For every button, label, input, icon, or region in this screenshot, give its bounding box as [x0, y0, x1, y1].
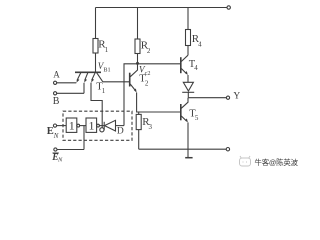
input A terminal [54, 81, 57, 84]
input EN terminal [53, 124, 56, 127]
node circle P [100, 128, 104, 132]
wire U1 to U2 [80, 125, 86, 127]
input /EN terminal [54, 148, 57, 151]
wire R1 to T1 base [95, 53, 97, 72]
ground [185, 157, 192, 159]
resistor R3 [136, 114, 141, 129]
diode VD [183, 82, 193, 91]
wire R2 to node Vc2 [137, 54, 139, 64]
wire U2 to diode D [99, 125, 103, 127]
svg-text:B: B [53, 96, 60, 107]
wire diode to output node [187, 92, 189, 97]
overline of /EN [53, 152, 59, 154]
VCC terminal [227, 6, 230, 9]
transistor T5 base bar [180, 104, 182, 120]
node Vc2 junction [136, 62, 139, 65]
svg-text:D: D [117, 127, 124, 137]
gate U1 box [66, 118, 77, 132]
resistor R1 [93, 39, 98, 54]
gate U2 output bubble [97, 124, 100, 127]
wire /EN riser [83, 126, 85, 150]
svg-text:1: 1 [69, 119, 75, 133]
transistor T1 (multi-emitter) base bar [75, 71, 101, 73]
svg-text:1: 1 [102, 87, 106, 95]
T2 emitter [130, 84, 136, 91]
wire input A [57, 82, 77, 84]
gate U2 box [86, 118, 97, 132]
svg-text:Y: Y [233, 92, 240, 102]
wire Vc2 to T4 base [138, 63, 181, 65]
transistor T2 base bar [129, 73, 131, 87]
svg-text:E: E [47, 126, 54, 137]
wire EN to gate U1 [57, 125, 67, 127]
svg-text:1: 1 [105, 46, 109, 54]
output Y terminal [226, 96, 229, 99]
svg-text:2: 2 [145, 80, 149, 88]
bottom terminal [226, 148, 229, 151]
svg-text:1: 1 [89, 119, 95, 133]
T1 emitter 1 [77, 72, 81, 80]
wire riser D to node Vc2 [124, 64, 138, 126]
svg-text:A: A [53, 69, 60, 79]
diode D triangle [105, 120, 116, 131]
wire node to T5 base [139, 111, 181, 113]
wire T2 emitter to R3 node [137, 93, 139, 115]
enable block dashed box [63, 111, 132, 140]
wire T1 collector to T2 base [103, 81, 129, 83]
wire T5 emitter to ground [187, 122, 189, 157]
svg-text:牛客@陈英波: 牛客@陈英波 [255, 158, 299, 167]
wire input B [57, 92, 84, 94]
wire R3 to bottom rail [138, 130, 140, 150]
T1 emitter 2 [85, 72, 88, 80]
svg-text:4: 4 [198, 40, 202, 48]
gate U1 output bubble [77, 124, 80, 127]
wire T4 emitter to diode [187, 75, 189, 82]
transistor T4 base bar [180, 57, 182, 73]
T4 collector [181, 55, 188, 61]
wire output node to Y [188, 97, 226, 99]
svg-text:3: 3 [149, 123, 153, 131]
T2 collector [130, 63, 137, 76]
resistor R2 [135, 39, 140, 54]
T5 emitter [181, 116, 186, 121]
input B terminal [54, 92, 57, 95]
wire emitter3 to enable block [91, 83, 102, 128]
power rail VCC (top) [96, 7, 228, 9]
svg-text:B1: B1 [103, 66, 110, 73]
watermark icon [240, 156, 251, 166]
wire R4 to T4 collector [187, 46, 189, 56]
wire rail to R1 [95, 8, 97, 39]
wire rail to R4 [187, 8, 189, 30]
bottom rail [139, 148, 227, 150]
T4 emitter [181, 69, 186, 74]
svg-text:4: 4 [194, 64, 198, 72]
wire emitter2 riser [83, 83, 85, 94]
T5 collector [181, 98, 188, 109]
svg-text:N: N [57, 157, 63, 164]
resistor R4 [186, 30, 191, 46]
svg-text:5: 5 [195, 114, 199, 122]
wire diode D to riser [116, 125, 125, 127]
svg-text:N: N [53, 132, 59, 140]
T1 collector [96, 72, 102, 82]
diode D cathode bar [103, 122, 105, 130]
wire rail to R2 [137, 8, 139, 40]
svg-text:2: 2 [147, 47, 151, 55]
T1 emitter 3 [92, 72, 96, 80]
wire /EN [57, 149, 84, 151]
